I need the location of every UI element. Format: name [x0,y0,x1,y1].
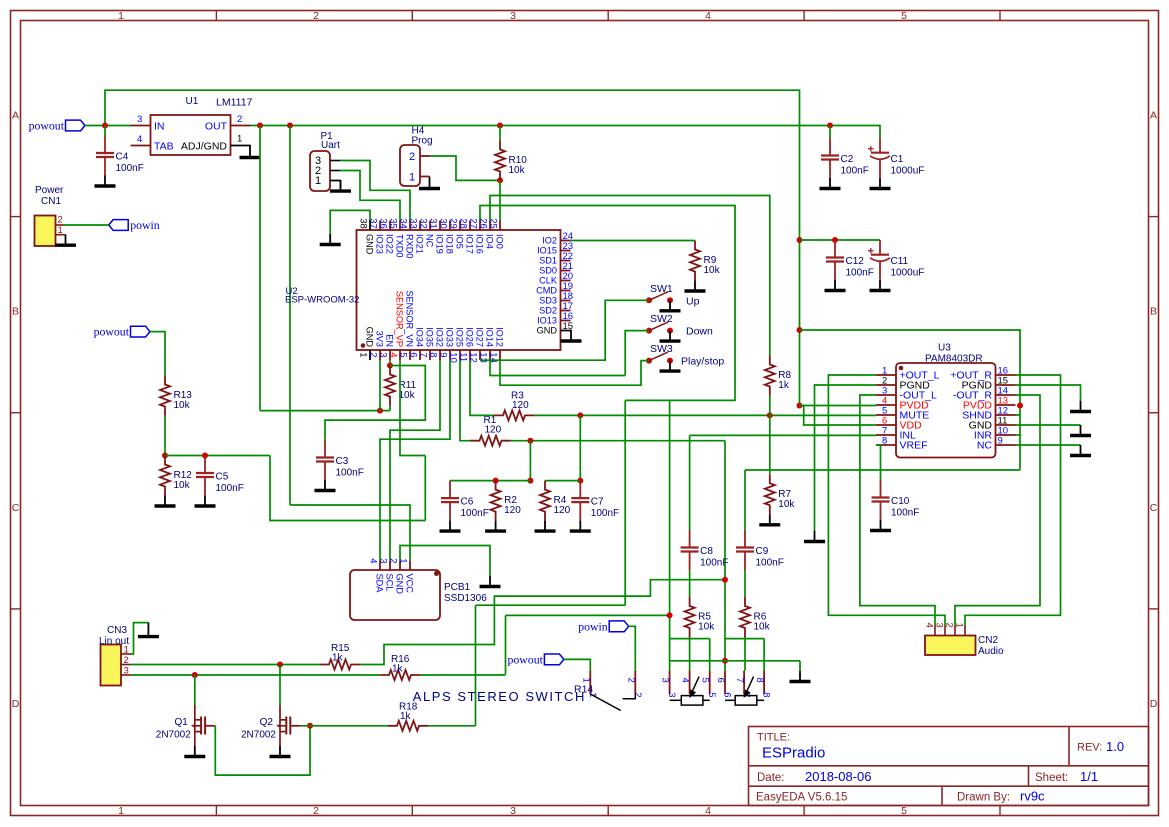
svg-text:IO32: IO32 [435,327,445,347]
junction at C12 top [832,237,838,243]
wire ESP pin38 GND [330,210,370,234]
svg-text:28: 28 [458,218,469,229]
svg-text:ADJ/GND: ADJ/GND [181,141,228,153]
frame row ticks left [11,217,21,609]
svg-text:29: 29 [448,218,459,229]
wire R filter rail [545,480,580,482]
C7 value 100nF [591,508,619,519]
svg-text:120: 120 [485,424,502,435]
R12 label [174,470,193,481]
wire CN1 pin2 to powin [64,224,109,226]
svg-text:1k: 1k [778,380,790,391]
svg-text:Power: Power [35,185,64,196]
C4 value 100nF [116,163,144,174]
U3 value PAM8403DR [925,354,983,365]
wire 3V3 drop to OLED VCC [289,126,291,506]
title label [757,732,790,744]
wire IO12 to SW3 [500,360,649,385]
wire 5V to PVDD right [800,330,1021,406]
wire R11 to rail [389,406,391,411]
ground at SW2 [660,331,681,342]
svg-text:Uart: Uart [321,140,340,151]
junction EN node [387,363,393,369]
wire IO14 to SW2 [490,360,625,376]
svg-text:10k: 10k [509,165,526,176]
R7 label [778,489,791,500]
svg-text:2N7002: 2N7002 [156,729,191,740]
net flag powin [109,218,160,232]
R15 label [331,643,350,654]
capacitor C3 [316,440,334,480]
frame row letters right [1150,110,1158,711]
junction R10 top [497,123,503,129]
svg-text:8: 8 [428,352,439,357]
capacitor C6 [441,481,459,521]
svg-text:100nF: 100nF [216,483,244,494]
svg-text:IO12: IO12 [495,327,505,347]
wire IO27 to SW1 [480,300,649,360]
wire L filter rail [450,480,530,482]
ground at PGND right [1070,401,1091,412]
svg-text:100nF: 100nF [336,468,364,479]
svg-text:OUT: OUT [205,121,228,133]
wire IO25 to R1 [460,360,471,441]
ground at U3 GND [1070,425,1091,436]
U1 value LM1117 [216,97,253,109]
junction L filter rail [527,478,533,484]
svg-text:32: 32 [418,218,429,229]
frame row letters left [12,110,20,711]
switch SW1 [646,292,673,304]
ground at C5 [195,496,216,507]
resistor R16 [380,670,420,680]
wire to C4 [104,126,106,136]
Q2 label [260,717,274,728]
wire H2 row [506,614,670,616]
svg-text:120: 120 [504,505,521,516]
C6 label [461,497,474,508]
ground at U1 ADJ/GND [240,147,261,158]
capacitor C8 [681,530,699,570]
svg-text:2N7002: 2N7002 [241,729,276,740]
SW2 name Down [686,326,713,338]
wire pot1 link [670,638,710,640]
resistor R7 [765,474,775,514]
svg-text:TXD0: TXD0 [395,234,405,258]
frame column numbers top [118,10,907,22]
svg-text:C2: C2 [841,154,854,165]
frame column numbers bottom [118,805,907,817]
svg-text:3: 3 [933,623,944,628]
svg-text:NC: NC [425,234,435,248]
resistor R13 [160,376,170,416]
svg-text:2: 2 [313,805,319,817]
ground at SW1 [660,300,681,311]
R9 value 10k [704,265,721,276]
svg-text:4: 4 [705,10,711,22]
svg-text:120: 120 [512,400,529,411]
svg-text:VCC: VCC [405,574,415,594]
svg-text:2: 2 [368,352,379,357]
wire PVDD drop [1019,406,1021,471]
title value ESPradio [762,745,825,762]
C9 value 100nF [756,558,784,569]
svg-text:REV:: REV: [1077,742,1102,754]
svg-text:C5: C5 [216,472,229,483]
R10 value 10k [509,165,526,176]
svg-text:Sheet:: Sheet: [1035,772,1068,784]
svg-text:8: 8 [882,436,887,447]
junction V4 R15 [722,577,728,583]
R11 label [399,380,417,391]
wire powout to junction [85,125,105,127]
junction 5V row330 [797,327,803,333]
wire row 605 [476,604,626,606]
svg-text:IO35: IO35 [425,327,435,347]
wire R16 out [420,674,506,676]
microcontroller module U2 ESP-WROOM-32 [357,218,574,363]
R3 value 120 [512,400,529,411]
switch R14 ALPS STEREO SWITCH [580,671,771,711]
svg-text:1: 1 [118,805,124,817]
svg-text:A: A [1150,110,1157,122]
svg-text:ESP-WROOM-32: ESP-WROOM-32 [285,295,359,306]
wire P1 pin3 to RXD0 [340,161,410,221]
resistor R18 [388,721,428,731]
junction at R2 [493,478,499,484]
svg-text:IO15: IO15 [537,246,557,256]
wire R1 out [511,440,726,442]
R11 value 10k [399,390,416,401]
ground at ESP pin15 [561,331,582,342]
svg-text:2: 2 [632,692,643,697]
svg-text:SDA: SDA [375,574,385,594]
wire EN to C3 [325,366,425,441]
wire IO33 to SDA [380,360,450,561]
svg-text:6: 6 [408,352,419,357]
svg-text:100nF: 100nF [591,508,619,519]
wire to ground stub [799,661,801,671]
wire V4 column [724,441,726,671]
wire IO26 to R3 [470,360,494,415]
C1 label [891,154,904,165]
wire CN3 pin1 to ground [131,623,148,654]
junction V4 row [722,658,728,664]
junction PVDD left [797,403,803,409]
capacitor C2 [821,138,839,178]
wire IO17 run [480,206,735,401]
wire 3V3 drop to EN pullup rail [259,126,261,411]
svg-text:2: 2 [409,151,415,163]
wire NC right [1016,444,1081,446]
wire C8 to R5 [689,570,691,597]
resistor R8 [765,356,775,396]
svg-text:IO14: IO14 [485,327,495,347]
ground at SW3 [660,361,681,372]
ground at R4 [535,521,556,532]
wire PGND right [1016,385,1081,401]
wire IO2 to R9 [571,240,696,242]
svg-text:powout: powout [29,119,65,133]
ground at Q1 source [184,746,205,757]
junction powout node [102,123,108,129]
wire R10 to ESP IO0 [499,180,501,220]
resistor R4 [540,481,550,521]
EasyEDA version label [756,792,847,804]
svg-text:IO34: IO34 [415,327,425,347]
wire +OUT_R to CN2 [965,375,1061,626]
junction 3V3 rail B [287,123,293,129]
svg-text:27: 27 [468,218,479,229]
wire VREF to C10 [876,445,881,480]
R12 value 10k [174,480,191,491]
R4 value 120 [554,505,571,516]
svg-text:PCB1: PCB1 [444,582,471,593]
ground at C7 [570,521,591,532]
junction at C2 [827,123,833,129]
junction R8/R7 node [767,412,773,418]
R8 label [778,370,791,381]
svg-text:100nF: 100nF [891,508,919,519]
svg-text:powin: powin [130,218,160,232]
connector CN1 Power [35,215,66,247]
svg-text:3: 3 [124,666,129,677]
C7 label [591,497,604,508]
ground at OLED [480,576,501,587]
svg-text:1: 1 [58,225,63,236]
R4 label [554,495,567,506]
svg-text:5: 5 [398,352,409,357]
junction R3 node [577,412,583,418]
junction R1 node [527,438,533,444]
svg-text:2: 2 [237,114,242,125]
net flag powin [578,619,629,633]
svg-text:3: 3 [510,10,516,22]
svg-text:10k: 10k [174,480,191,491]
capacitor C9 [736,530,754,570]
title block [749,727,1149,806]
wire R6 to ALPS pin7 [744,637,746,671]
svg-text:100nF: 100nF [116,163,144,174]
junction R10 bottom [497,177,503,183]
ground at C12 [825,280,846,291]
wire CN3 pin2 line [131,664,320,666]
svg-text:IO27: IO27 [475,327,485,347]
wire P1 pin2 to TXD0 [340,171,400,221]
Q2 value 2N7002 [241,729,276,740]
svg-text:C6: C6 [461,497,474,508]
wire C9 to R6 [744,570,746,597]
amplifier U3 PAM8403DR [876,363,1016,458]
PCB1 refdes label [444,582,471,593]
wire -OUT_R to CN2 [955,395,1040,626]
wire R18 out [428,725,476,727]
svg-text:2: 2 [58,215,63,226]
svg-text:3: 3 [666,692,677,697]
net flag powout [94,325,150,339]
capacitor C5 [196,456,214,496]
svg-text:SD0: SD0 [539,266,557,276]
svg-text:D: D [12,698,20,710]
svg-text:8: 8 [761,692,772,697]
C12 value 100nF [846,268,874,279]
C6 value 100nF [461,508,489,519]
resistor R12 [160,456,170,496]
wire IO17 drop [624,400,626,605]
svg-text:4: 4 [137,134,142,145]
svg-text:SD2: SD2 [539,306,557,316]
svg-text:1k: 1k [332,652,344,663]
wire GND right [1016,424,1081,426]
C11 label [891,256,909,267]
ground at PGND left [804,531,825,542]
svg-text:3: 3 [660,678,671,683]
wire R18 riser [475,605,477,726]
C2 value 100nF [841,166,869,177]
SW1 label [650,283,673,295]
wire rail to R10 [499,126,501,141]
junction R filter rail [577,478,583,484]
svg-text:IO13: IO13 [537,316,557,326]
svg-text:D: D [1150,698,1158,710]
R2 value 120 [504,505,521,516]
svg-text:IO22: IO22 [385,234,395,254]
ground at P1 pin1 [330,181,351,192]
svg-text:2: 2 [388,558,399,563]
svg-text:6: 6 [715,678,726,683]
svg-text:IO25: IO25 [455,327,465,347]
PCB1 value SSD1306 [444,593,487,604]
frame column ticks top [216,11,1000,21]
svg-text:U3: U3 [938,343,951,354]
wire OLED GND [400,546,490,577]
svg-text:Audio: Audio [978,646,1004,657]
switch SW2 [646,322,673,334]
svg-text:5: 5 [901,805,907,817]
svg-text:TAB: TAB [154,141,174,153]
ground at CN3 pin1 [138,623,159,637]
svg-text:100nF: 100nF [756,558,784,569]
svg-text:100nF: 100nF [841,166,869,177]
REV value 1.0 [1106,739,1124,754]
svg-text:6: 6 [722,692,733,697]
ground at C1 [870,178,891,189]
junction Q2 drain [277,662,283,668]
svg-text:Date:: Date: [757,772,785,784]
connector CN3 Lin out [101,645,132,686]
wire to ALPS pin3 [669,400,671,670]
svg-text:1: 1 [118,10,124,22]
svg-text:10k: 10k [698,622,715,633]
R5 value 10k [698,622,715,633]
Drawn By label [957,792,1010,804]
R13 value 10k [174,400,191,411]
C5 value 100nF [216,483,244,494]
svg-text:powout: powout [507,652,543,666]
svg-text:CMD: CMD [536,286,557,296]
R5 label [698,612,711,623]
svg-text:C: C [1150,502,1158,514]
svg-text:IO5: IO5 [455,234,465,249]
svg-text:7: 7 [734,678,745,683]
svg-text:100nF: 100nF [461,508,489,519]
C3 label [336,456,349,467]
H4 refdes label [412,126,425,137]
wire 5V to C12/C11 [800,239,881,241]
svg-text:2018-08-06: 2018-08-06 [805,769,872,784]
wire H4 pin2 to IO0 [430,156,500,180]
svg-text:powin: powin [578,619,608,633]
svg-text:8: 8 [754,678,765,683]
svg-text:SW3: SW3 [650,343,673,355]
wire powin to ALPS pin2 [629,626,636,670]
frame row ticks right [1149,217,1159,609]
CN3 value Lin out [99,636,129,647]
Drawn By value rv9c [1020,789,1045,804]
svg-text:1/1: 1/1 [1080,769,1098,784]
svg-text:CN2: CN2 [978,635,998,646]
U2 refdes label [286,286,298,297]
svg-text:1: 1 [315,175,321,187]
R9 label [704,255,717,266]
svg-text:7: 7 [418,352,429,357]
wire EN stub [389,360,391,366]
REV label [1077,742,1102,754]
regulator U1 LM1117 [131,114,251,155]
svg-text:SD1: SD1 [539,256,557,266]
C3 value 100nF [336,468,364,479]
wire +OUT_L to CN2 [828,375,945,626]
wire R8 to R7 [769,396,771,475]
junction divider node [162,453,168,459]
svg-text:C3: C3 [336,456,349,467]
junction 5V at C12 [797,237,803,243]
resistor R6 [740,597,750,637]
resistor R10 [495,140,505,180]
C9 label [756,546,769,557]
svg-text:IO16: IO16 [475,234,485,254]
C5 label [216,472,229,483]
R7 value 10k [778,499,795,510]
svg-text:IO26: IO26 [465,327,475,347]
svg-text:Q2: Q2 [260,717,274,728]
C10 label [891,496,910,507]
svg-text:C10: C10 [891,496,910,507]
svg-text:37: 37 [368,218,379,229]
svg-text:B: B [1150,306,1157,318]
R6 label [754,612,767,623]
net flag powout [29,119,85,133]
resistor R3 [494,410,534,420]
C1 value 1000uF [891,166,925,177]
C10 value 100nF [891,508,919,519]
svg-text:36: 36 [378,218,389,229]
svg-text:35: 35 [388,218,399,229]
svg-text:2: 2 [625,678,636,683]
svg-text:ALPS STEREO SWITCH: ALPS STEREO SWITCH [413,689,586,704]
CN1 value Power [35,185,64,196]
svg-text:10k: 10k [704,265,721,276]
C2 label [841,154,854,165]
ground at CN1 pin1 [55,235,76,246]
H4 value Prog [412,136,433,147]
svg-text:IN: IN [154,121,165,133]
wire powout to R13 [150,332,165,376]
svg-text:CN3: CN3 [107,625,127,636]
resistor R15 [320,660,360,670]
svg-text:SENSOR_VN: SENSOR_VN [405,290,415,347]
wire gate tie [215,726,310,775]
